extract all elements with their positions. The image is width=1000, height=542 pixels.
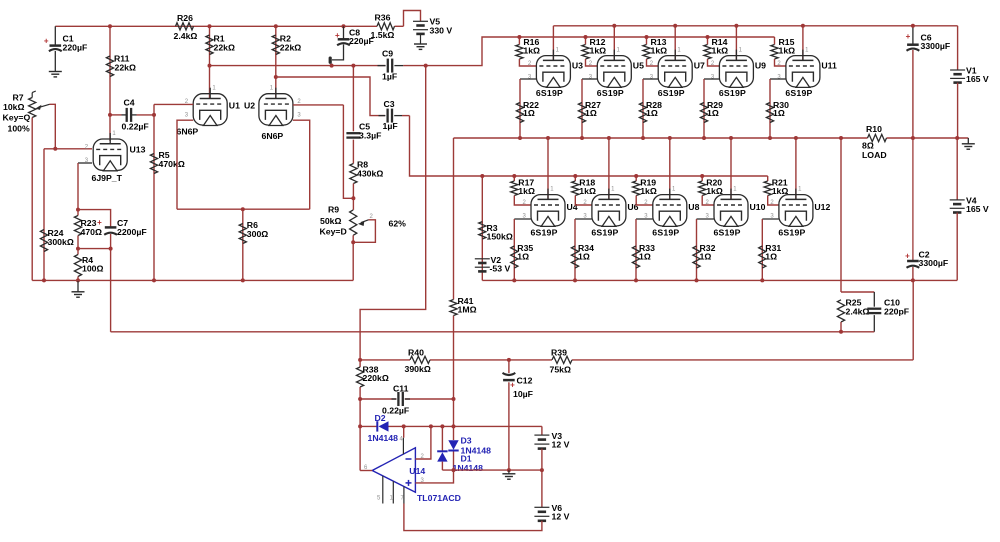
label U12 type bbox=[778, 227, 805, 237]
junction rail R24 bbox=[42, 278, 46, 282]
label C12 bbox=[513, 375, 533, 399]
svg-text:1Ω: 1Ω bbox=[639, 251, 651, 261]
svg-text:U1: U1 bbox=[229, 101, 240, 111]
pin numbers U4 bbox=[523, 187, 555, 220]
wire feedback line F1 bbox=[111, 331, 875, 333]
label U3 type bbox=[536, 88, 563, 98]
svg-text:330 V: 330 V bbox=[430, 25, 453, 35]
resistor R18 bbox=[572, 181, 579, 196]
svg-text:6J9P_T: 6J9P_T bbox=[92, 173, 123, 183]
svg-text:75kΩ: 75kΩ bbox=[550, 364, 571, 374]
label R2 bbox=[280, 34, 301, 53]
svg-text:1Ω: 1Ω bbox=[585, 108, 597, 118]
svg-text:6S19P: 6S19P bbox=[778, 227, 805, 237]
wire plate U6 bbox=[608, 138, 610, 199]
wire plate U3 bbox=[552, 26, 554, 61]
junction rail R5 bbox=[152, 278, 156, 282]
resistor R28 bbox=[639, 103, 646, 123]
junction bottom rail R31 bbox=[760, 278, 764, 282]
triode U12 bbox=[779, 189, 813, 227]
pin numbers U2 bbox=[270, 86, 302, 119]
label R13 bbox=[651, 37, 668, 56]
wire U2 grid lead bbox=[293, 104, 344, 106]
pin numbers U10 bbox=[706, 187, 738, 220]
wire R20 to grid bbox=[702, 196, 714, 206]
svg-text:1Ω: 1Ω bbox=[646, 108, 658, 118]
ground below R4 bbox=[72, 292, 85, 297]
wire plate U8 bbox=[669, 138, 671, 199]
svg-text:1N4148: 1N4148 bbox=[453, 463, 484, 473]
junction lower grid bus R17 bbox=[512, 174, 516, 178]
wire C12 ground stub bbox=[508, 470, 510, 474]
svg-text:62%: 62% bbox=[389, 219, 407, 229]
junction R7 wiper to U13 grid bbox=[53, 147, 57, 151]
svg-text:U6: U6 bbox=[627, 202, 638, 212]
triode U6 bbox=[592, 189, 626, 227]
svg-text:U9: U9 bbox=[755, 61, 766, 71]
wire R25 C10 top bbox=[841, 291, 874, 293]
label C7 bbox=[117, 218, 147, 237]
wire V4 to bottom rail bbox=[956, 213, 958, 281]
label U11 type bbox=[785, 88, 812, 98]
capacitor C4 bbox=[110, 108, 154, 122]
svg-text:12 V: 12 V bbox=[552, 511, 570, 521]
resistor R23 bbox=[74, 210, 81, 249]
label V4 bbox=[966, 195, 989, 214]
svg-text:C3: C3 bbox=[384, 99, 395, 109]
wire plate U9 bbox=[735, 26, 737, 61]
svg-text:R40: R40 bbox=[408, 347, 424, 357]
wire U1 cathode bbox=[177, 120, 193, 209]
ground at output bus bbox=[962, 144, 975, 149]
svg-text:1kΩ: 1kΩ bbox=[712, 45, 729, 55]
junction F1 R25 bbox=[839, 330, 843, 334]
wire servo line F2 bbox=[360, 280, 913, 360]
svg-text:6S19P: 6S19P bbox=[591, 227, 618, 237]
junction C6 bottom bbox=[911, 136, 915, 140]
wire R11 branch bbox=[109, 26, 111, 115]
svg-text:470Ω: 470Ω bbox=[81, 227, 102, 237]
wire R38 to opamp bbox=[359, 387, 361, 471]
svg-text:6S19P: 6S19P bbox=[652, 227, 679, 237]
diode D1 bbox=[437, 451, 447, 461]
label V1 bbox=[966, 66, 989, 85]
svg-text:1kΩ: 1kΩ bbox=[651, 45, 668, 55]
wire output tap to R25 bbox=[840, 138, 842, 292]
wire R15 to grid bbox=[775, 59, 786, 66]
svg-text:470kΩ: 470kΩ bbox=[159, 159, 185, 169]
junction D2 line left bbox=[358, 424, 362, 428]
svg-text:430kΩ: 430kΩ bbox=[357, 168, 383, 178]
label U2 bbox=[244, 101, 255, 111]
wire C5 to R8 bbox=[352, 140, 354, 164]
label C2 bbox=[919, 249, 949, 268]
label U5 bbox=[633, 61, 644, 71]
wire D2 line bbox=[360, 425, 542, 427]
svg-text:6S19P: 6S19P bbox=[719, 88, 746, 98]
capacitor C12 bbox=[503, 360, 516, 470]
junction output bus U6 bbox=[607, 136, 611, 140]
wire R6 branch bbox=[242, 209, 244, 280]
label R16 bbox=[523, 37, 540, 56]
wire grid branch R14 bbox=[707, 37, 709, 45]
svg-text:2.4kΩ: 2.4kΩ bbox=[846, 306, 870, 316]
wire grid branch R21 bbox=[767, 176, 769, 181]
junction top rail at R11 bbox=[108, 24, 112, 28]
label R35 bbox=[517, 243, 533, 261]
wire R41 chain bbox=[453, 138, 455, 470]
label U6 type bbox=[591, 227, 618, 237]
label U14 bbox=[409, 466, 425, 476]
wire R17 to grid bbox=[514, 196, 531, 206]
junction reference plus input bbox=[452, 468, 456, 472]
svg-text:1kΩ: 1kΩ bbox=[779, 45, 796, 55]
label R15 bbox=[779, 37, 796, 56]
label U1 type bbox=[177, 127, 199, 137]
wire V3 bottom bbox=[541, 449, 543, 471]
label C11 bbox=[382, 384, 409, 416]
svg-text:U13: U13 bbox=[130, 145, 146, 155]
pin numbers U12 bbox=[770, 187, 802, 220]
wire V6 bottom to opamp bbox=[404, 504, 542, 531]
junction output bus R29 bbox=[702, 136, 706, 140]
wire plate U5 bbox=[613, 26, 615, 61]
connector bubble at C8 bbox=[329, 57, 332, 66]
wire grid branch R19 bbox=[635, 176, 637, 181]
label U4 bbox=[567, 202, 578, 212]
wire V1 branch bbox=[957, 26, 959, 70]
svg-text:1kΩ: 1kΩ bbox=[590, 45, 607, 55]
battery V3 bbox=[534, 435, 549, 449]
battery V4 bbox=[950, 200, 965, 213]
wire R9 wiper loop bbox=[353, 220, 375, 243]
svg-text:390kΩ: 390kΩ bbox=[405, 364, 431, 374]
capacitor C11 bbox=[392, 392, 411, 406]
svg-text:1kΩ: 1kΩ bbox=[706, 186, 723, 196]
wire U13 plate bbox=[109, 115, 111, 141]
wire ground stub bbox=[77, 280, 79, 291]
label R27 bbox=[585, 100, 601, 118]
svg-text:150kΩ: 150kΩ bbox=[487, 231, 513, 241]
wire cathode U6 bbox=[575, 219, 592, 280]
label C3 bbox=[383, 99, 398, 131]
pin numbers U1 bbox=[185, 86, 217, 119]
wire left ground rail bbox=[32, 279, 353, 281]
wire D1 bottom bbox=[441, 462, 443, 471]
resistor R36 bbox=[377, 23, 394, 30]
wire grid branch R17 bbox=[513, 176, 515, 181]
pin numbers U13 bbox=[85, 131, 117, 164]
svg-text:220kΩ: 220kΩ bbox=[363, 373, 389, 383]
svg-text:1Ω: 1Ω bbox=[707, 108, 719, 118]
diode D3 bbox=[448, 440, 458, 450]
label R20 bbox=[706, 177, 723, 196]
svg-text:0.22µF: 0.22µF bbox=[382, 406, 409, 416]
svg-text:22kΩ: 22kΩ bbox=[115, 62, 136, 72]
resistor R6 bbox=[239, 224, 246, 244]
potentiometer R9 bbox=[350, 210, 369, 235]
junction C6 top bbox=[911, 24, 915, 28]
label R17 bbox=[518, 177, 535, 196]
label U13 bbox=[130, 145, 146, 155]
wire grid branch R16 bbox=[518, 37, 520, 45]
svg-text:10kΩ: 10kΩ bbox=[3, 102, 24, 112]
junction lower grid bus R18 bbox=[573, 174, 577, 178]
label U8 type bbox=[652, 227, 679, 237]
svg-text:100Ω: 100Ω bbox=[82, 263, 103, 273]
label V5 bbox=[430, 16, 453, 35]
junction R23 bottom bbox=[76, 247, 80, 251]
junction C7 bottom bbox=[109, 247, 113, 251]
junction plate bus U9 bbox=[734, 24, 738, 28]
label U7 bbox=[694, 61, 705, 71]
wire plate U11 bbox=[802, 26, 804, 61]
junction C11 right bbox=[452, 397, 456, 401]
label U6 bbox=[627, 202, 638, 212]
resistor R25 bbox=[837, 300, 844, 332]
resistor R39 bbox=[552, 356, 572, 363]
svg-text:R10: R10 bbox=[866, 124, 882, 134]
wire D1 branch bbox=[441, 426, 443, 451]
label R40 bbox=[405, 347, 431, 374]
svg-text:D2: D2 bbox=[375, 413, 386, 423]
wire upper-grid tap to R38 bbox=[360, 66, 426, 367]
svg-text:+: + bbox=[905, 251, 910, 260]
svg-text:TL071ACD: TL071ACD bbox=[417, 493, 461, 503]
label R1 bbox=[214, 34, 235, 53]
svg-text:6S19P: 6S19P bbox=[714, 227, 741, 237]
junction output bus R28 bbox=[641, 136, 645, 140]
wire R24 branch bbox=[43, 149, 45, 281]
battery V5 bbox=[413, 21, 428, 44]
junction U13 cathode node bbox=[76, 208, 80, 212]
wire cathode U11 bbox=[770, 79, 786, 138]
label C5 bbox=[359, 122, 381, 141]
svg-text:50kΩ: 50kΩ bbox=[320, 216, 341, 226]
svg-text:3300µF: 3300µF bbox=[921, 41, 951, 51]
resistor R29 bbox=[700, 103, 707, 123]
junction output bus U8 bbox=[668, 136, 672, 140]
resistor R41 bbox=[450, 300, 457, 316]
svg-text:2200µF: 2200µF bbox=[117, 227, 147, 237]
wire R1 branch bbox=[209, 26, 211, 99]
svg-text:220µF: 220µF bbox=[349, 36, 374, 46]
junction lower grid bus R19 bbox=[634, 174, 638, 178]
junction C4 left bbox=[108, 113, 112, 117]
resistor R1 bbox=[206, 35, 213, 55]
wire V1 to output bus bbox=[957, 83, 959, 138]
svg-text:3.3µF: 3.3µF bbox=[359, 130, 381, 140]
label U10 bbox=[750, 202, 766, 212]
label U2 type bbox=[262, 131, 284, 141]
resistor R4 bbox=[74, 249, 81, 281]
label R7 bbox=[3, 93, 31, 134]
junction C2 bottom rail bbox=[911, 278, 915, 282]
wire cathode U4 bbox=[514, 219, 531, 280]
wire minus input bbox=[415, 426, 431, 459]
svg-text:300kΩ: 300kΩ bbox=[48, 237, 74, 247]
resistor R12 bbox=[582, 45, 589, 60]
resistor R34 bbox=[571, 246, 578, 268]
svg-text:R26: R26 bbox=[177, 13, 193, 23]
wire cathode U3 bbox=[520, 79, 536, 138]
wire R7 wiper bbox=[50, 104, 56, 149]
svg-text:1Ω: 1Ω bbox=[517, 251, 529, 261]
pin numbers U6 bbox=[583, 187, 615, 220]
resistor R24 bbox=[40, 230, 47, 252]
label R8 bbox=[357, 160, 383, 179]
svg-text:U12: U12 bbox=[814, 202, 830, 212]
svg-text:R7: R7 bbox=[13, 93, 24, 103]
svg-text:U10: U10 bbox=[750, 202, 766, 212]
wire cathode U7 bbox=[643, 79, 658, 138]
wire cathode U9 bbox=[704, 79, 719, 138]
svg-text:1kΩ: 1kΩ bbox=[640, 186, 657, 196]
junction R4 at ground rail bbox=[76, 278, 80, 282]
junction top rail at C8 bbox=[342, 24, 346, 28]
junction lower grid bus R20 bbox=[700, 174, 704, 178]
junction V1 output bus bbox=[955, 136, 959, 140]
triode U9 bbox=[719, 50, 753, 88]
label C4 bbox=[122, 98, 149, 132]
label R22 bbox=[523, 100, 539, 118]
svg-text:1kΩ: 1kΩ bbox=[523, 45, 540, 55]
junction bottom rail R34 bbox=[573, 278, 577, 282]
triode U3 bbox=[536, 50, 570, 88]
svg-text:165 V: 165 V bbox=[966, 204, 989, 214]
resistor R14 bbox=[704, 45, 711, 60]
resistor R40 bbox=[410, 356, 430, 363]
svg-text:1kΩ: 1kΩ bbox=[518, 186, 535, 196]
wire grid branch R18 bbox=[574, 176, 576, 181]
pin numbers U9 bbox=[711, 48, 743, 81]
junction plate bus U5 bbox=[612, 24, 616, 28]
svg-text:6S19P: 6S19P bbox=[536, 88, 563, 98]
capacitor C2 bbox=[905, 138, 919, 280]
svg-text:+: + bbox=[44, 36, 49, 45]
svg-text:C11: C11 bbox=[393, 384, 409, 394]
resistor R3 bbox=[479, 222, 486, 239]
svg-text:300Ω: 300Ω bbox=[247, 229, 268, 239]
triode U8 bbox=[653, 189, 687, 227]
wire U13 grid line bbox=[44, 148, 92, 150]
wire bottom rail bbox=[482, 279, 957, 281]
wire C11 line bbox=[360, 398, 453, 400]
label R34 bbox=[578, 243, 594, 261]
capacitor C1 bbox=[44, 26, 62, 71]
label V2 bbox=[490, 255, 511, 274]
wire U1 grid lead bbox=[154, 103, 193, 105]
label V6 bbox=[552, 503, 570, 522]
svg-text:6S19P: 6S19P bbox=[785, 88, 812, 98]
label D2 bbox=[368, 413, 399, 443]
label C10 bbox=[884, 298, 909, 317]
junction grid bus R13 bbox=[645, 35, 649, 39]
label V3 bbox=[552, 431, 570, 450]
pin number R9 wiper bbox=[370, 214, 374, 220]
svg-text:1µF: 1µF bbox=[382, 71, 397, 81]
junction grid bus R12 bbox=[584, 35, 588, 39]
junction bottom rail R32 bbox=[695, 278, 699, 282]
junction bottom rail R33 bbox=[634, 278, 638, 282]
label R41 bbox=[458, 296, 477, 315]
svg-text:R9: R9 bbox=[328, 205, 339, 215]
wire cathode U8 bbox=[636, 219, 653, 280]
svg-text:U5: U5 bbox=[633, 61, 644, 71]
wire R23 C7 bottom tie bbox=[78, 248, 111, 250]
junction R8 bottom bbox=[351, 196, 355, 200]
resistor R30 bbox=[766, 103, 773, 123]
resistor R2 bbox=[272, 35, 279, 55]
label U5 type bbox=[597, 88, 624, 98]
resistor R38 bbox=[357, 367, 364, 387]
triode U11 bbox=[786, 50, 820, 88]
svg-text:U7: U7 bbox=[694, 61, 705, 71]
op-amp U14 bbox=[372, 438, 415, 504]
svg-text:U8: U8 bbox=[688, 202, 699, 212]
label D3 bbox=[461, 435, 492, 455]
svg-text:220µF: 220µF bbox=[63, 42, 88, 52]
junction C8 at driver bus bbox=[330, 64, 334, 68]
svg-text:1Ω: 1Ω bbox=[578, 251, 590, 261]
label U9 type bbox=[719, 88, 746, 98]
wire grid branch R15 bbox=[774, 37, 776, 45]
label R33 bbox=[639, 243, 655, 261]
svg-text:+: + bbox=[335, 31, 340, 40]
junction lower grid bus R3 bbox=[480, 174, 484, 178]
svg-text:C12: C12 bbox=[517, 375, 533, 385]
resistor R21 bbox=[764, 181, 771, 196]
junction R6 top bbox=[241, 207, 245, 211]
label U9 bbox=[755, 61, 766, 71]
wire common cathode line bbox=[177, 208, 310, 210]
junction output bus U12 bbox=[794, 136, 798, 140]
capacitor C6 bbox=[906, 26, 920, 138]
label C9 bbox=[382, 48, 397, 81]
label U11 bbox=[821, 61, 837, 71]
label R12 bbox=[590, 37, 607, 56]
wire cathode U10 bbox=[697, 219, 715, 280]
wire R9 bottom bbox=[352, 235, 354, 280]
resistor R13 bbox=[643, 45, 650, 60]
pin numbers U3 bbox=[528, 48, 560, 81]
wire R14 to grid bbox=[708, 59, 720, 66]
junction plate bus U11 bbox=[801, 24, 805, 28]
wire opamp pin4 stub bbox=[403, 426, 405, 437]
battery V6 bbox=[534, 507, 549, 521]
wire B+ top rail bbox=[55, 11, 420, 27]
wire R3 V2 branch bbox=[481, 176, 483, 280]
wire C5 chain top bbox=[352, 66, 354, 132]
label R24 bbox=[48, 228, 74, 247]
label U1 bbox=[229, 101, 240, 111]
resistor R11 bbox=[106, 56, 113, 76]
svg-text:+: + bbox=[97, 218, 102, 227]
label U12 bbox=[814, 202, 830, 212]
label R14 bbox=[712, 37, 729, 56]
wire grid branch R20 bbox=[701, 176, 703, 181]
label R11 bbox=[114, 53, 136, 72]
svg-text:6S19P: 6S19P bbox=[597, 88, 624, 98]
svg-text:U2: U2 bbox=[244, 101, 255, 111]
battery V2 bbox=[475, 259, 490, 272]
potentiometer R7 bbox=[29, 91, 50, 118]
wire R13 to grid bbox=[647, 59, 659, 66]
triode U5 bbox=[597, 50, 631, 88]
wire R19 to grid bbox=[636, 196, 653, 206]
ground below V5 bbox=[414, 44, 427, 49]
junction output bus R22 bbox=[518, 136, 522, 140]
